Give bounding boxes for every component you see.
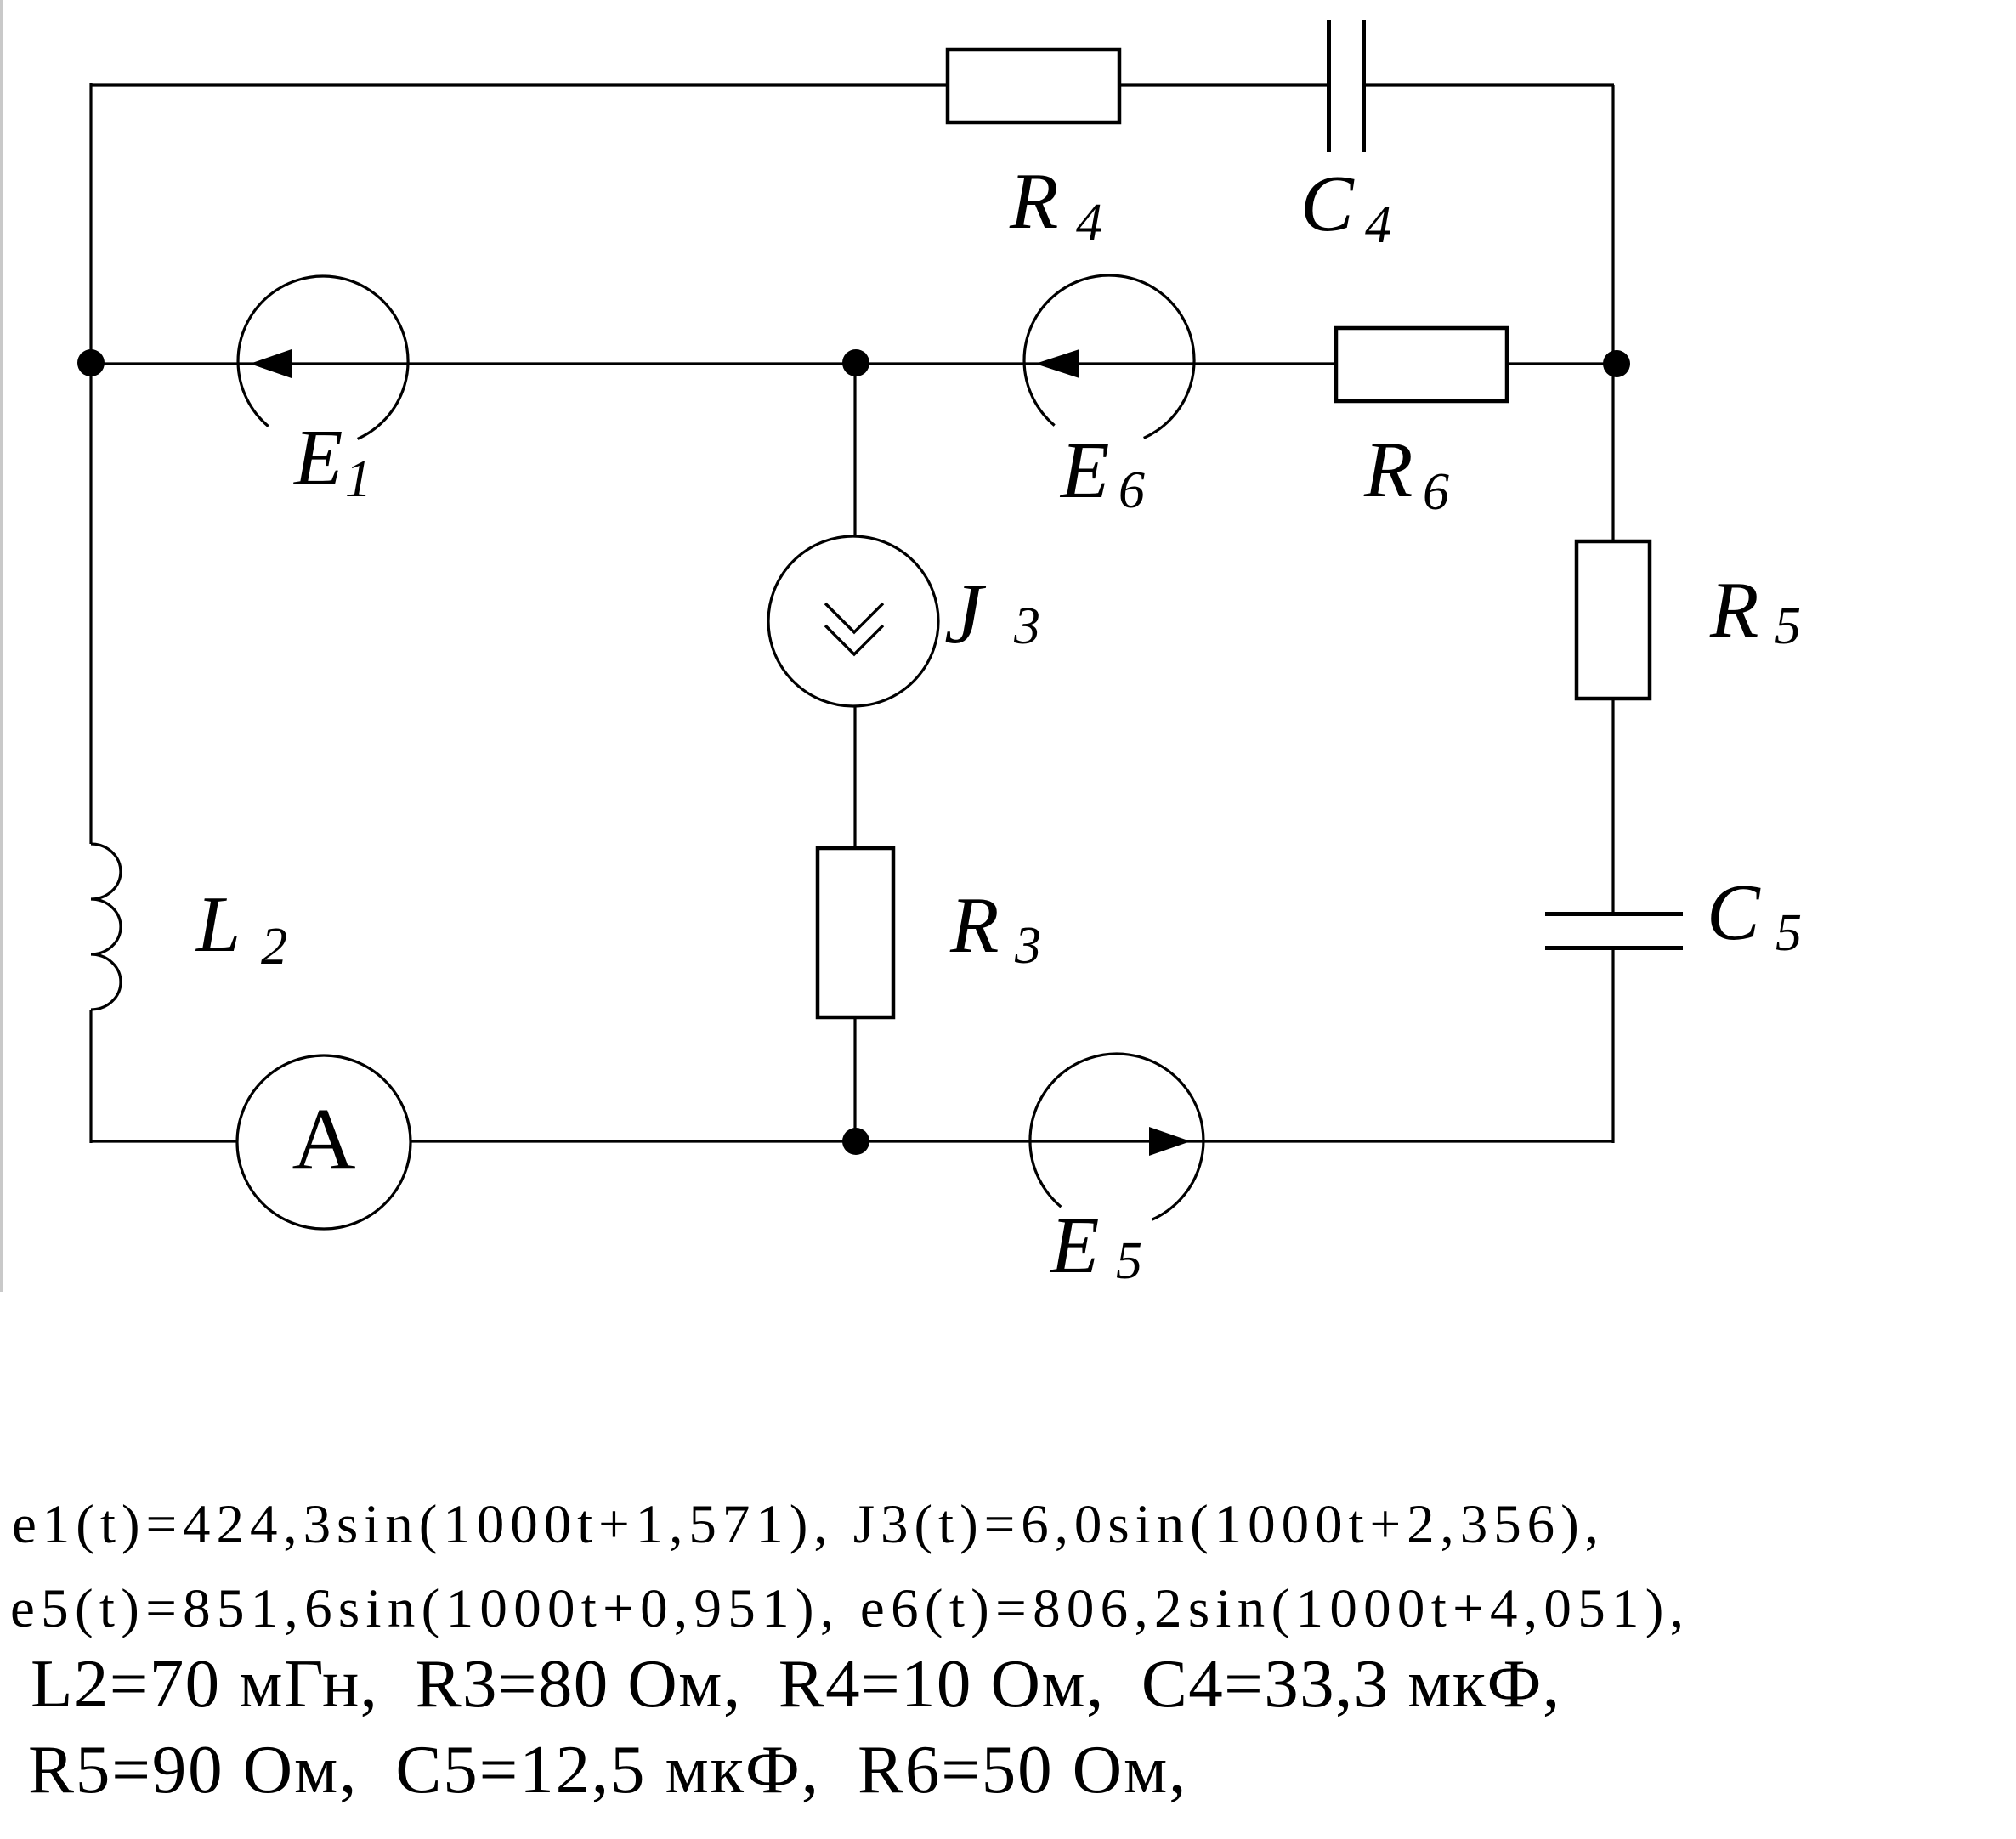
- svg-text:E: E: [1049, 1202, 1099, 1290]
- svg-text:4: 4: [1365, 196, 1391, 254]
- svg-text:6: 6: [1423, 463, 1449, 521]
- wire left lower segment: [89, 1010, 92, 1143]
- wire right upper segment: [1611, 85, 1614, 914]
- svg-text:6: 6: [1118, 461, 1145, 519]
- svg-text:5: 5: [1775, 904, 1802, 962]
- wire middle horizontal: [91, 362, 1613, 365]
- svg-text:L: L: [195, 880, 241, 969]
- svg-text:1: 1: [345, 450, 371, 508]
- capacitor C4: [1329, 20, 1364, 152]
- svg-text:E: E: [292, 414, 343, 502]
- svg-text:C: C: [1300, 160, 1355, 248]
- svg-text:C: C: [1707, 869, 1761, 957]
- resistor R4: [948, 49, 1119, 122]
- svg-text:R: R: [1363, 426, 1413, 514]
- wire bottom: [91, 1140, 1613, 1142]
- voltage source E5: [1030, 1054, 1203, 1219]
- node junction left: [77, 349, 105, 376]
- svg-text:E: E: [1059, 427, 1109, 515]
- voltage source E1: [238, 276, 408, 439]
- resistor R6: [1336, 328, 1507, 401]
- inductor L2: [91, 844, 121, 1010]
- wire top-left segment: [91, 83, 1328, 86]
- current source J3: [768, 536, 938, 706]
- wire middle vertical: [853, 364, 856, 1141]
- svg-text:2: 2: [261, 918, 287, 976]
- svg-text:A: A: [292, 1090, 355, 1188]
- svg-text:L2=70 мГн, R3=80 Ом, R4=10 О: L2=70 мГн, R3=80 Ом, R4=10 Ом, C4=33,3 м…: [31, 1645, 1560, 1722]
- svg-text:R: R: [1009, 157, 1058, 246]
- svg-text:R5=90 Ом, C5=12,5 мкФ, R6=50: R5=90 Ом, C5=12,5 мкФ, R6=50 Ом,: [28, 1731, 1187, 1808]
- resistor R5: [1577, 541, 1650, 699]
- svg-text:R: R: [1709, 566, 1758, 654]
- svg-text:5: 5: [1116, 1232, 1142, 1290]
- svg-text:3: 3: [1014, 917, 1041, 975]
- node junction bottom: [842, 1128, 869, 1155]
- ammeter A: [237, 1055, 411, 1229]
- voltage source E6: [1024, 275, 1194, 438]
- svg-text:e1(t)=424,3sin(1000t+1,571), J: e1(t)=424,3sin(1000t+1,571), J3(t)=6,0si…: [12, 1494, 1605, 1555]
- svg-text:3: 3: [1013, 597, 1040, 655]
- node junction right: [1603, 350, 1630, 377]
- capacitor C5: [1545, 914, 1683, 948]
- svg-text:J: J: [944, 566, 987, 662]
- svg-text:4: 4: [1076, 194, 1102, 252]
- svg-text:e5(t)=851,6sin(1000t+0,951), e: e5(t)=851,6sin(1000t+0,951), e6(t)=806,2…: [10, 1578, 1690, 1639]
- wire top-right segment: [1363, 83, 1614, 86]
- svg-text:R: R: [949, 881, 999, 970]
- node junction middle: [842, 349, 869, 376]
- svg-text:5: 5: [1775, 597, 1801, 655]
- wire right lower segment: [1611, 948, 1614, 1143]
- resistor R3: [818, 848, 893, 1017]
- wire left upper segment: [89, 83, 92, 844]
